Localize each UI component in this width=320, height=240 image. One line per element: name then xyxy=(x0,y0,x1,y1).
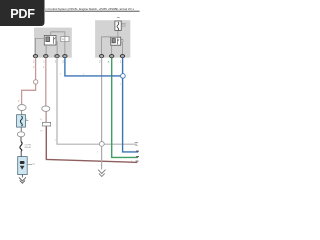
wire box to C2 xyxy=(20,127,22,132)
wire: relay to pin2 xyxy=(45,45,47,55)
inline component squiggle (C/OPN) xyxy=(20,142,22,151)
pin 3 (right box) xyxy=(120,55,124,58)
squiggle inside blue box xyxy=(20,116,22,126)
pump element 1 xyxy=(20,161,25,164)
relay K2 stub a xyxy=(121,39,124,41)
grey end marks xyxy=(135,141,138,144)
wire: pink W2 from pin1 down xyxy=(45,58,47,107)
wire: K2 left to pin1 (right box) xyxy=(102,37,111,55)
blue box stub xyxy=(25,119,28,121)
junction circle on W6/W8 xyxy=(121,74,126,79)
svg-text:m Control System (VIN 8L, Engi: m Control System (VIN 8L, Engine Switch,… xyxy=(45,7,134,11)
relay K2 contact xyxy=(118,38,120,44)
wire pump to ground xyxy=(21,175,23,178)
svg-text:RELAY: RELAY xyxy=(25,146,32,149)
wire: grey W4 from left pin3 down then right xyxy=(57,58,137,145)
header underline xyxy=(45,10,140,12)
maroon end tick xyxy=(136,161,139,162)
wire: relay to pin1 xyxy=(36,38,45,54)
inline connector halves xyxy=(43,122,51,126)
pin 3 (left box) xyxy=(55,55,59,58)
ignition switch SW1 body xyxy=(115,21,121,30)
wire: K2 stub to pin3 (right box) xyxy=(122,43,124,55)
relay K1 coil xyxy=(46,37,50,42)
blue end tick xyxy=(136,151,139,152)
svg-text:1G: 1G xyxy=(40,130,43,132)
relay K2 body (starter relay) xyxy=(111,37,121,45)
circuit opening relay box (light blue) xyxy=(17,115,26,127)
pin 2 (left box) xyxy=(33,55,37,58)
oval connector C3 xyxy=(42,106,50,111)
green end tick xyxy=(136,156,139,157)
header tiny dash xyxy=(117,16,120,19)
relay K1 contact xyxy=(54,37,56,44)
page background xyxy=(0,0,149,198)
pump element 2 xyxy=(20,166,25,170)
bracket tick xyxy=(62,38,64,40)
relay K2 stub b xyxy=(121,42,123,44)
ground G2 xyxy=(98,170,105,177)
pin 2 (right box) xyxy=(110,55,114,58)
pump box stub xyxy=(27,163,32,165)
pin 1 (left box) xyxy=(44,55,48,58)
wire: relay to pin3 xyxy=(56,42,57,55)
wire: blue W8 from right pin3 down then right xyxy=(123,58,139,152)
component box: ignition switch block (right) xyxy=(95,20,130,58)
wire C1 to fuse box xyxy=(21,111,23,115)
wire: relay top to pin4 xyxy=(51,32,65,55)
pump stub mark xyxy=(32,163,35,166)
relay K1 body xyxy=(44,35,56,45)
relay K2 coil xyxy=(112,39,115,43)
pin 1 (right box) xyxy=(99,55,103,58)
ground G1 xyxy=(19,177,26,183)
oval connector C2 xyxy=(17,132,24,137)
pin 5 (left box) xyxy=(63,55,67,58)
wire C2 down xyxy=(20,137,22,142)
wire: pink W1 from pin2 down, jog left xyxy=(22,58,36,105)
wire squiggle to pump xyxy=(20,151,22,157)
component box: relay block (left, EFI main relay) xyxy=(34,28,72,58)
wire: K2 bottom to pin2 (right box) xyxy=(111,45,113,54)
connector bracket J1 xyxy=(61,37,69,42)
oval connector C1 xyxy=(18,105,26,111)
wire C3 to junction connector xyxy=(45,111,47,122)
connector circle on W1 xyxy=(34,80,38,84)
wire: green W7 from right pin2 down then right xyxy=(112,58,138,158)
wire: grey W5 right box pin1 straight down to ground xyxy=(101,58,103,170)
fuel pump box (light blue) xyxy=(18,157,28,175)
junction circle on W4/W5 xyxy=(99,142,104,147)
wire: maroon W3 down and right (long bottom run) xyxy=(46,126,137,162)
ignition switch squiggle xyxy=(117,22,119,30)
wire: blue W6 from left pin5 down, right to junction xyxy=(65,58,121,76)
wire: switch to relay K2 xyxy=(117,30,119,37)
svg-text:PDF: PDF xyxy=(10,7,35,21)
PDF badge xyxy=(0,0,45,26)
